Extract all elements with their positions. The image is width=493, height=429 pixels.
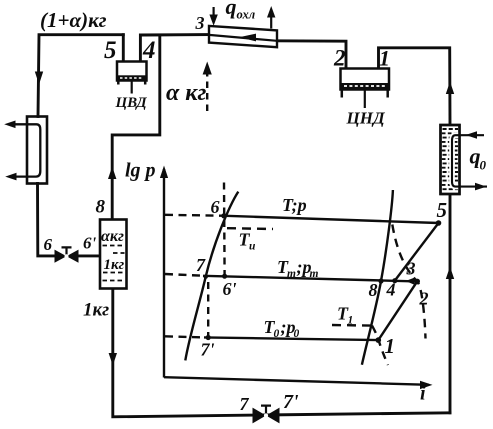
svg-text:u: u: [249, 241, 256, 253]
svg-text:1: 1: [348, 315, 354, 327]
svg-text:4: 4: [386, 280, 396, 300]
svg-text:T;p: T;p: [282, 195, 307, 215]
svg-text:α кг: α кг: [166, 80, 206, 106]
svg-text:5: 5: [437, 198, 448, 222]
svg-text:1кг: 1кг: [83, 300, 109, 321]
svg-text:3: 3: [406, 259, 416, 279]
svg-text:7: 7: [240, 394, 250, 414]
svg-text:2: 2: [333, 46, 346, 71]
svg-text:0: 0: [480, 158, 487, 173]
svg-text:6: 6: [44, 235, 53, 254]
svg-text:i: i: [420, 383, 426, 405]
svg-text:1: 1: [385, 334, 396, 358]
svg-text:ЦВД: ЦВД: [115, 95, 148, 111]
svg-text:6': 6': [223, 279, 237, 299]
svg-text:0: 0: [274, 328, 280, 340]
svg-text:m: m: [310, 268, 319, 280]
svg-text:ЦНД: ЦНД: [346, 109, 386, 128]
svg-text:2: 2: [419, 289, 429, 309]
svg-text:m: m: [287, 268, 296, 280]
svg-text:q: q: [226, 0, 237, 19]
svg-text:4: 4: [142, 37, 156, 64]
svg-text:охл: охл: [237, 8, 256, 22]
svg-text:8: 8: [369, 280, 378, 300]
svg-text:7': 7': [283, 391, 299, 413]
svg-text:lg p: lg p: [125, 160, 156, 182]
svg-text:6': 6': [83, 234, 97, 253]
svg-text:8: 8: [96, 197, 106, 218]
svg-text:1: 1: [379, 46, 390, 71]
svg-text:3: 3: [195, 13, 205, 33]
svg-text:(1+α)кг: (1+α)кг: [40, 8, 107, 32]
svg-text:7: 7: [196, 255, 206, 275]
svg-text:1кг: 1кг: [104, 257, 125, 273]
svg-text:αкг: αкг: [101, 228, 124, 245]
svg-text:6: 6: [211, 197, 220, 217]
svg-text:7': 7': [201, 340, 215, 360]
svg-text:0: 0: [294, 328, 300, 340]
svg-text:5: 5: [104, 37, 117, 64]
